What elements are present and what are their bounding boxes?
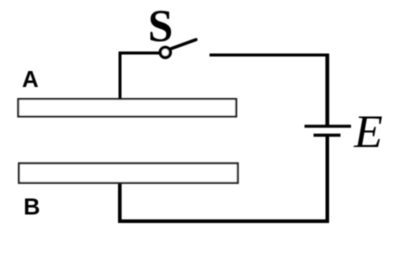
svg-text:B: B: [24, 194, 41, 220]
svg-text:S: S: [148, 1, 173, 51]
svg-text:E: E: [353, 106, 383, 158]
svg-text:A: A: [22, 66, 39, 92]
